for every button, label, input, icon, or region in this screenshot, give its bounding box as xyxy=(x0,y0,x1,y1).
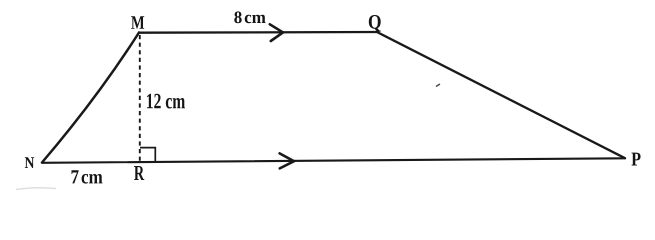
label M xyxy=(131,16,144,29)
wire: top side MQ xyxy=(139,31,377,34)
wire: side MN of trapezium xyxy=(42,33,139,163)
dimension label 7 cm xyxy=(72,170,103,183)
arrowhead on NP xyxy=(280,153,294,168)
label N xyxy=(25,157,34,168)
arrowhead on MQ xyxy=(270,24,283,41)
wire: side QP xyxy=(377,32,625,158)
label R xyxy=(134,166,144,180)
faint smudge bottom left xyxy=(16,188,56,190)
right angle mark at R xyxy=(140,148,155,162)
wire: bottom side NP xyxy=(42,158,625,163)
label Q xyxy=(369,15,381,32)
label P xyxy=(632,153,641,166)
dimension label 8 cm xyxy=(234,11,265,23)
dimension label 12 cm xyxy=(147,94,185,109)
dashed altitude MR xyxy=(139,35,141,162)
scan speck near QP xyxy=(436,84,440,87)
